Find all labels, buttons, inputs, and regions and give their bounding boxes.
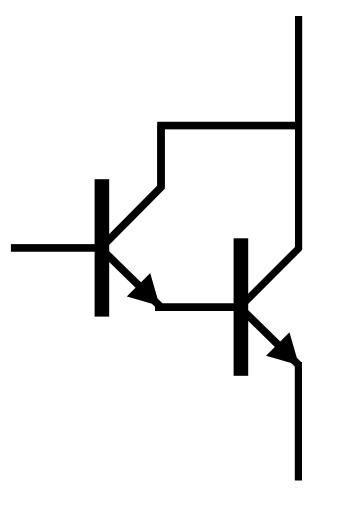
transistor Q2 emitter lead <box>240 307 299 365</box>
base input wire <box>11 244 101 252</box>
wire from Q1 collector to rail <box>161 126 302 188</box>
transistor Q2 base bar <box>234 238 249 375</box>
emitter output wire <box>295 362 302 481</box>
transistor Q1 collector lead <box>101 126 161 249</box>
wire from Q1 emitter to Q2 base <box>155 303 240 311</box>
transistor Q1 emitter arrow <box>127 273 160 306</box>
collector rail wire <box>240 16 299 307</box>
transistor Q1 base bar <box>95 179 110 316</box>
transistor Q1 emitter lead <box>101 248 160 306</box>
transistor Q2 emitter arrow <box>266 332 299 365</box>
